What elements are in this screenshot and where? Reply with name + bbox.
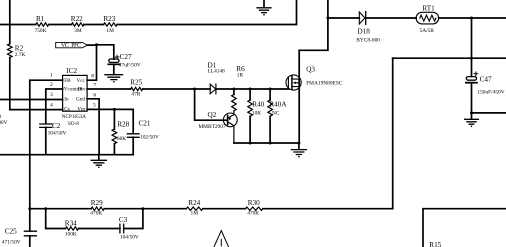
wire C47 bottom to ground node <box>471 84 473 113</box>
svg-text:MMBT2907: MMBT2907 <box>198 124 226 130</box>
svg-text:Q2: Q2 <box>208 111 217 119</box>
ground hanging from top edge <box>257 0 271 16</box>
node R40A bottom <box>269 142 272 145</box>
wire between R1 and R22 <box>49 24 72 26</box>
svg-text:2.7K: 2.7K <box>15 52 26 58</box>
wire left vertical bus top <box>9 0 11 44</box>
svg-text:102/50V: 102/50V <box>140 134 159 140</box>
capacitor C25 <box>2 209 37 247</box>
ground under C47 <box>465 113 479 127</box>
node R40 bottom <box>249 142 252 145</box>
svg-text:6: 6 <box>93 92 96 98</box>
svg-text:R40: R40 <box>252 101 264 109</box>
resistor R24 <box>186 199 203 216</box>
wire between R22 and R23 <box>84 24 104 26</box>
node Q2 base junction <box>193 88 196 91</box>
node R28 top <box>113 108 116 111</box>
resistor R23 <box>103 15 117 34</box>
wire pin 7 Drv to R25 <box>87 88 131 90</box>
svg-text:750K: 750K <box>35 28 47 34</box>
svg-text:5A/5R: 5A/5R <box>420 28 435 34</box>
svg-text:1: 1 <box>50 73 53 79</box>
resistor R29 <box>90 199 104 216</box>
wire Q3 drain up to D18 rail <box>299 0 328 50</box>
wire source rail under Q2/R40/R40A <box>234 142 299 144</box>
svg-text:IC2: IC2 <box>66 67 77 75</box>
resistor R1 <box>35 15 49 34</box>
svg-text:Cs: Cs <box>64 107 69 113</box>
svg-text:3: 3 <box>50 92 53 98</box>
svg-text:R23: R23 <box>103 15 115 23</box>
svg-text:C2: C2 <box>52 122 61 130</box>
svg-text:R2: R2 <box>15 44 24 52</box>
svg-text:VC_PFC: VC_PFC <box>61 43 81 49</box>
node R34 branch left junction <box>44 207 47 210</box>
svg-text:C27: C27 <box>120 53 132 61</box>
svg-text:FMA19N80ESC: FMA19N80ESC <box>306 80 343 86</box>
resistor R25 <box>130 78 143 97</box>
svg-text:Vm: Vm <box>77 107 85 113</box>
svg-text:NCP1653A: NCP1653A <box>62 114 86 120</box>
wire pin 1 FB left then down to bottom rail <box>30 80 63 209</box>
net flag VC_PFC <box>56 42 88 49</box>
wire bottom rail left <box>30 208 91 210</box>
node VC_PFC junction <box>95 43 98 46</box>
wire C3 to bottom rail <box>124 209 143 229</box>
svg-text:7: 7 <box>93 82 96 88</box>
resistor R30 <box>246 199 263 216</box>
svg-text:47R: 47R <box>131 92 140 98</box>
diode D1 <box>208 62 226 94</box>
resistor R6 <box>232 65 245 111</box>
svg-text:BYC8-600: BYC8-600 <box>356 38 380 44</box>
svg-text:C21: C21 <box>139 120 151 128</box>
resistor R28 <box>112 109 129 154</box>
wire pin 6 Gnd down to ground rail <box>87 99 99 155</box>
node R40 top <box>249 88 252 91</box>
wire R29 to R24 <box>104 208 186 210</box>
svg-text:RT1: RT1 <box>422 4 435 12</box>
svg-text:R28: R28 <box>117 121 129 129</box>
wire to D18 <box>328 17 359 19</box>
wire R30 to output return <box>263 208 393 210</box>
svg-text:LL4148: LL4148 <box>208 69 226 75</box>
wire top rail left segment <box>0 24 36 26</box>
wire ground rail from left edge <box>0 154 133 156</box>
svg-text:10K: 10K <box>252 111 261 117</box>
node C47 top junction <box>470 17 473 20</box>
wire R34 to C3 <box>79 228 120 230</box>
wire pin 5 Vm to R28/C21 <box>87 108 133 110</box>
resistor R2 <box>8 44 26 58</box>
transistor Q2 MMBT2907 <box>198 111 237 143</box>
svg-text:R22: R22 <box>71 15 83 23</box>
capacitor C47 polarized <box>466 72 505 96</box>
svg-text:Q3: Q3 <box>306 66 315 74</box>
svg-text:2: 2 <box>50 82 53 88</box>
svg-text:NC: NC <box>272 111 280 117</box>
wire top rail right segment rising to top edge <box>117 0 296 25</box>
svg-text:C25: C25 <box>5 228 17 236</box>
svg-text:C47: C47 <box>480 76 492 84</box>
svg-text:Drv: Drv <box>78 87 86 93</box>
wire pin 8 Vcc up to VC_PFC node <box>87 45 96 80</box>
wire ground rail to right edge <box>472 112 506 114</box>
svg-text:D18: D18 <box>358 28 371 36</box>
svg-text:R15: R15 <box>429 241 441 247</box>
svg-text:47uF/50V: 47uF/50V <box>119 63 141 69</box>
wire left bus below R2 to IC2 pin 4 <box>10 58 63 110</box>
svg-text:R34: R34 <box>65 219 77 227</box>
svg-text:470K: 470K <box>90 211 102 217</box>
wire D1 cathode to Q3 gate <box>216 88 289 90</box>
svg-text:SO-8: SO-8 <box>68 121 79 127</box>
svg-text:Gnd: Gnd <box>76 97 85 103</box>
wire pin 3 In from left edge <box>0 99 63 101</box>
IC NCP1653A IC2 <box>62 67 87 127</box>
node C47 ground junction <box>470 111 473 114</box>
svg-text:5: 5 <box>93 103 96 109</box>
node Q3 source junction <box>297 142 300 145</box>
svg-text:471/50V: 471/50V <box>2 239 21 245</box>
resistor R40 <box>248 89 265 143</box>
wire output return vertical <box>392 58 394 209</box>
svg-text:8: 8 <box>91 73 94 79</box>
svg-text:R1: R1 <box>36 15 45 23</box>
thermistor RT1 <box>416 4 439 34</box>
svg-text:C3: C3 <box>119 216 128 224</box>
wire RT1 to right edge <box>439 17 506 19</box>
svg-text:104/50V: 104/50V <box>48 131 67 137</box>
resistor R22 <box>71 15 84 34</box>
node R40A top <box>269 88 272 91</box>
wire R25 to D1 <box>143 88 211 90</box>
node D18 anode junction <box>326 17 329 20</box>
wire D18 to RT1 <box>366 17 416 19</box>
svg-text:R24: R24 <box>188 199 200 207</box>
wire pin 2 left then down to C2 <box>46 89 63 123</box>
transistor Q3 FMA19N80ESC MOSFET <box>286 50 343 143</box>
diode D18 BYC8-600 <box>356 12 380 44</box>
capacitor C21 <box>127 109 159 154</box>
warning triangle symbol <box>213 231 229 247</box>
svg-text:1M: 1M <box>106 28 114 34</box>
svg-text:470K: 470K <box>247 211 259 217</box>
svg-text:R29: R29 <box>91 199 103 207</box>
svg-text:100K: 100K <box>65 231 77 237</box>
wire C47 vertical drop <box>471 18 473 76</box>
capacitor C3 <box>119 216 139 241</box>
wire bottom-right net corner <box>423 209 506 247</box>
wire R34/C3 branch <box>46 209 66 229</box>
net label fragment at left edge <box>0 114 8 126</box>
wire Q2 base drop <box>195 89 228 120</box>
node output rail junction <box>470 57 473 60</box>
svg-text:R40A: R40A <box>269 101 287 109</box>
node bottom-left junction <box>28 207 31 210</box>
svg-text:4: 4 <box>50 102 53 108</box>
svg-text:In: In <box>64 97 69 103</box>
node R6 top <box>232 88 235 91</box>
resistor R40A <box>268 89 288 143</box>
ground under Q3 <box>291 143 306 157</box>
resistor R34 <box>65 219 79 237</box>
ground IC2 <box>91 155 106 168</box>
svg-text:90V: 90V <box>0 120 8 126</box>
wire R24 to R30 <box>203 208 246 210</box>
wire VC_PFC to C27 <box>87 45 113 59</box>
svg-text:R25: R25 <box>130 78 142 86</box>
ground under C27 <box>105 64 123 82</box>
svg-text:68K: 68K <box>117 136 126 142</box>
svg-text:R30: R30 <box>248 199 260 207</box>
capacitor C27 polarized <box>108 53 140 68</box>
svg-text:FB: FB <box>64 78 71 84</box>
svg-text:Vcc: Vcc <box>77 78 86 84</box>
svg-text:1R: 1R <box>237 72 244 78</box>
node C3 branch right junction <box>141 207 144 210</box>
capacitor C2 <box>40 122 67 155</box>
svg-text:3M: 3M <box>74 28 82 34</box>
svg-text:104/50V: 104/50V <box>120 235 139 241</box>
wire output rail to right edge <box>393 57 506 59</box>
svg-text:1M: 1M <box>191 211 199 217</box>
svg-text:150uF/450V: 150uF/450V <box>477 90 504 96</box>
